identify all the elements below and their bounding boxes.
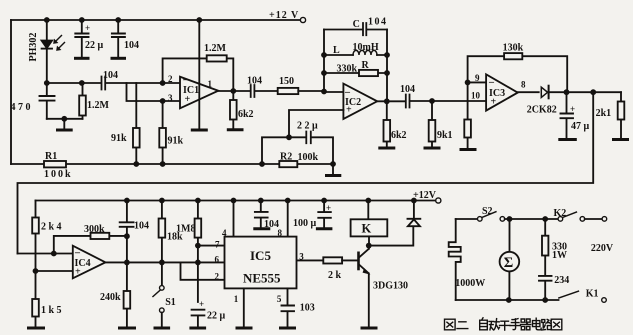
junction node (126.9,262.4) (124, 260, 130, 266)
resistor 9k1 (425, 101, 439, 148)
capacitor 104 c (251, 85, 255, 97)
wire pin1 (237, 288, 251, 328)
relay K coil (351, 201, 388, 246)
junction node (289,137.3) (286, 134, 292, 140)
resistor 18k (159, 201, 166, 263)
transistor 3DG130 (359, 246, 377, 328)
svg-text:+: + (75, 267, 81, 278)
svg-text:1W: 1W (552, 250, 567, 261)
wire to 150 (256, 90, 278, 92)
wire IC3 pin9 input (468, 81, 487, 83)
wire 2k to base (342, 259, 357, 261)
svg-text:+12V: +12V (413, 190, 437, 201)
junction node (118.2,20) (115, 17, 121, 23)
op-amp IC1 power wire (198, 20, 200, 129)
svg-text:103: 103 (300, 303, 315, 314)
diode flyback (408, 201, 421, 227)
resistor 2k4 (32, 201, 39, 272)
wire IC2 noninv input (289, 110, 343, 137)
capacitor 22u electrolytic (75, 20, 88, 58)
svg-text:7: 7 (215, 240, 220, 250)
capacitor 104 b (112, 20, 125, 58)
svg-text:2 k: 2 k (328, 270, 342, 281)
wire IC1 output (218, 90, 249, 92)
op-amp IC3 (486, 74, 518, 110)
inductor L 10mH (324, 50, 387, 55)
svg-text:K1: K1 (586, 289, 599, 300)
junction node (64.3,118.8) (61, 116, 67, 122)
svg-text:330k: 330k (337, 64, 358, 75)
wire mains top row (456, 218, 478, 220)
resistor 1k5 (29, 271, 44, 328)
junction node (324,55) (321, 52, 327, 58)
wire pin2 jog (181, 262, 224, 279)
ground under IC1 (192, 129, 206, 132)
op-amp IC2 (343, 84, 377, 119)
resistor 6k2 no.1 (228, 91, 242, 130)
svg-text:91k: 91k (168, 135, 184, 146)
junction node (387,55) (384, 52, 390, 58)
caption text 图二 自动干手器电路图 (drawn strokes) (445, 318, 562, 330)
svg-text:C: C (353, 19, 360, 30)
capacitor 234 (539, 276, 552, 300)
junction node (233.3,91) (230, 88, 236, 94)
svg-text:10mH: 10mH (353, 42, 379, 53)
svg-text:5: 5 (277, 294, 282, 304)
svg-text:+: + (491, 97, 497, 108)
junction node (35.5,271) (33, 268, 39, 274)
wire IC4 inverting input (18, 253, 73, 255)
resistor 6k2 no.2 (380, 101, 394, 148)
resistor 1.2M vertical (79, 83, 86, 119)
ground under 470 (58, 119, 72, 130)
switch K2 (558, 212, 607, 221)
junction node (566.5,92.2) (564, 89, 570, 95)
svg-text:+: + (185, 94, 191, 105)
junction node (197.9,245.6) (195, 243, 201, 249)
svg-text:1: 1 (208, 79, 213, 89)
op-amp IC1 (180, 77, 218, 109)
svg-text:1: 1 (234, 294, 239, 304)
junction node (136.3,164) (133, 161, 139, 167)
capacitor C 104 tank (324, 23, 387, 35)
svg-text:234: 234 (554, 275, 569, 286)
wire left frame (10, 20, 12, 164)
resistor 150 (278, 88, 299, 94)
node +12V terminal bottom (436, 198, 441, 203)
svg-text:100k: 100k (44, 169, 73, 180)
wire pin7 (198, 245, 223, 247)
junction node (386.8,101.3) (384, 98, 390, 104)
junction node (197.9,200.5) (195, 198, 201, 204)
resistor 130k feedback (468, 53, 568, 91)
resistor 330 1W (542, 219, 548, 275)
resistor 1.2M feedback (163, 55, 234, 91)
svg-text:–: – (488, 77, 495, 88)
svg-text:Σ: Σ (504, 255, 513, 271)
svg-text:3: 3 (168, 93, 173, 103)
resistor 91k no.2 (159, 101, 166, 164)
svg-text:+: + (85, 23, 90, 33)
svg-text:3DG130: 3DG130 (373, 281, 408, 292)
svg-text:–: – (74, 248, 81, 259)
resistor 2k (323, 257, 342, 263)
svg-text:2: 2 (168, 74, 173, 84)
capacitor 104 d (406, 95, 410, 108)
svg-text:6: 6 (215, 255, 220, 265)
capacitor 100u decoupling (317, 201, 331, 229)
junction node (233.5,200.5) (231, 198, 237, 204)
svg-text:1 k 5: 1 k 5 (41, 305, 62, 316)
junction node (387,73) (384, 70, 390, 76)
junction node (324.1,200.5) (321, 198, 327, 204)
svg-text:1.2M: 1.2M (204, 43, 227, 54)
wire PH302 branch (46, 20, 48, 83)
wire tank right vertical (386, 30, 388, 102)
node +12V terminal top (300, 17, 305, 22)
op-amp IC4 (73, 246, 106, 279)
capacitor 104 e (120, 201, 134, 263)
junction node (199.3,20) (196, 17, 202, 23)
svg-text:104: 104 (264, 219, 279, 230)
svg-text:100k: 100k (298, 152, 319, 163)
resistor 1k (461, 82, 475, 149)
switch S2 (478, 212, 559, 222)
junction node (593.2,92.2) (590, 89, 596, 95)
wire jog to pin3 (127, 83, 181, 101)
svg-text:3: 3 (299, 252, 304, 262)
resistor 91k no.1 (133, 83, 140, 164)
svg-text:S1: S1 (165, 297, 176, 308)
capacitor 104 a (coupling) (102, 77, 106, 90)
svg-text:1.2M: 1.2M (87, 100, 110, 111)
svg-text:2 2 μ: 2 2 μ (297, 121, 318, 132)
wire detector node (567, 91, 622, 93)
svg-text:+: + (199, 299, 204, 309)
capacitor 22u timing (191, 310, 205, 328)
wire tank left vertical (323, 30, 325, 92)
svg-text:9: 9 (475, 73, 480, 83)
junction node (467.6,82.4) (465, 80, 471, 86)
svg-text:22 μ: 22 μ (85, 40, 104, 51)
svg-text:2CK82: 2CK82 (527, 105, 557, 116)
wire mains bottom row (456, 299, 559, 301)
wire pin8 (287, 201, 289, 237)
svg-text:K2: K2 (554, 208, 567, 219)
svg-text:–: – (182, 75, 189, 86)
junction node (81.8,20) (79, 17, 85, 23)
junction node (545.2,300) (542, 297, 548, 303)
svg-text:130k: 130k (503, 43, 524, 54)
junction node (162.6,164) (160, 161, 166, 167)
wire R1 row (11, 163, 262, 165)
svg-text:+12 V: +12 V (269, 10, 299, 21)
svg-text:8: 8 (521, 79, 526, 89)
wire top +12V rail (11, 19, 300, 21)
capacitor 103 pin5 (281, 288, 295, 328)
junction node (162.6,101) (160, 98, 166, 104)
svg-text:1M8: 1M8 (176, 224, 195, 235)
junction node (81.8,83) (79, 80, 85, 86)
svg-text:9k1: 9k1 (437, 130, 453, 141)
svg-text:240k: 240k (100, 292, 121, 303)
junction node (432,101) (429, 98, 435, 104)
junction node (508.8,300) (506, 297, 512, 303)
junction node (260.8,200.5) (258, 198, 264, 204)
junction node (368.8,245.6) (366, 243, 372, 249)
svg-text:220V: 220V (591, 243, 614, 254)
resistor R1 (44, 161, 66, 167)
svg-text:NE555: NE555 (243, 271, 281, 286)
junction node (324,91.5) (321, 89, 327, 95)
wire IC4 noninv input (36, 270, 73, 272)
wire IC2 output (377, 100, 405, 102)
wire pin4 (233, 201, 235, 237)
svg-text:470: 470 (11, 102, 34, 113)
svg-text:+: + (326, 203, 331, 213)
svg-text:104: 104 (247, 76, 262, 87)
capacitor 22u + resistor R2 100k network (262, 132, 340, 176)
junction node (161.9,200.5) (159, 198, 165, 204)
capacitor 104 f decoupling (255, 201, 269, 229)
svg-text:6k2: 6k2 (391, 130, 407, 141)
svg-text:R: R (362, 60, 370, 71)
wire 470/1.2M bottom (47, 118, 83, 120)
photodiode PH302 (42, 36, 65, 51)
wire +12V rail bottom (36, 200, 436, 202)
junction node (413.9,200.5) (411, 198, 417, 204)
svg-text:IC5: IC5 (250, 248, 271, 263)
junction node (126.9,236.2) (124, 233, 130, 239)
svg-text:104: 104 (103, 70, 118, 81)
svg-text:PH302: PH302 (28, 33, 39, 62)
svg-text:L: L (333, 45, 340, 56)
capacitor 47u (560, 92, 576, 139)
resistor R 330k (324, 70, 387, 76)
svg-text:100 μ: 100 μ (293, 218, 317, 229)
svg-text:104: 104 (400, 84, 415, 95)
junction node (324,73) (321, 70, 327, 76)
junction node (161.9,262.4) (159, 260, 165, 266)
svg-text:10: 10 (471, 91, 481, 101)
svg-text:1000W: 1000W (455, 278, 485, 289)
junction node (287.7,200.5) (285, 198, 291, 204)
resistor 1M8 (195, 201, 202, 303)
svg-text:47 μ: 47 μ (571, 121, 590, 132)
svg-text:6k2: 6k2 (238, 109, 254, 120)
junction node (46.8,83) (44, 80, 50, 86)
junction node (197.9,262.4) (195, 260, 201, 266)
svg-text:4: 4 (222, 228, 227, 238)
svg-text:2 k 4: 2 k 4 (41, 222, 62, 233)
junction node (368.3,200.5) (365, 198, 371, 204)
svg-text:104: 104 (368, 17, 388, 28)
resistor 2k1 (614, 92, 628, 139)
svg-text:R1: R1 (45, 151, 57, 162)
junction node (126.9,200.5) (124, 198, 130, 204)
junction node (509.5,219) (507, 216, 513, 222)
svg-text:91k: 91k (111, 133, 127, 144)
svg-text:+: + (570, 104, 575, 114)
junction node (46.8,20) (44, 17, 50, 23)
wire long drop to comparator (18, 92, 594, 253)
wire row2 (47, 82, 100, 84)
svg-text:300k: 300k (84, 224, 105, 235)
resistor 240k (120, 262, 135, 328)
svg-text:2: 2 (215, 272, 220, 282)
IC5 NE555 box (225, 237, 297, 289)
wire collector node to diode (369, 226, 414, 245)
motor M (500, 219, 520, 300)
wire row2 to IC1 pin2 (107, 82, 180, 84)
switch S1 (153, 262, 169, 328)
svg-text:+: + (346, 105, 352, 116)
junction node (162.6,83) (160, 80, 166, 86)
svg-text:R2: R2 (280, 152, 292, 163)
wire IC4 output row (105, 261, 223, 263)
wire to IC3 pin10 (411, 100, 486, 102)
switch K1 (559, 291, 606, 302)
capacitor 470 (40, 83, 55, 119)
junction node (53.8,253.5) (51, 251, 57, 257)
wire IC2 inverting input (324, 91, 343, 93)
wire IC3 output (518, 91, 539, 93)
svg-text:150: 150 (279, 76, 294, 87)
svg-text:22 μ: 22 μ (207, 311, 226, 322)
junction node (262,164) (259, 161, 265, 167)
junction node (333,164) (330, 161, 336, 167)
diode 2CK82 (541, 86, 566, 99)
svg-text:104: 104 (124, 40, 139, 51)
svg-text:S2: S2 (482, 206, 493, 217)
heater 1000W (449, 219, 461, 300)
junction node (545.2,219) (542, 216, 548, 222)
svg-text:K: K (362, 222, 372, 236)
svg-text:2k1: 2k1 (596, 108, 612, 119)
wire pin3 (297, 259, 323, 261)
resistor 300k feedback (54, 233, 127, 254)
svg-text:104: 104 (134, 221, 149, 232)
wire 150 to tank (298, 90, 324, 92)
